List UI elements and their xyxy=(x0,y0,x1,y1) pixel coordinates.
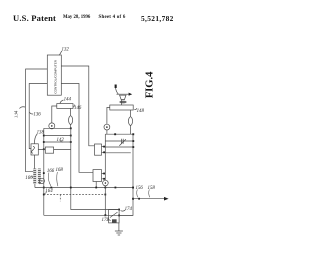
left lead down to electrode circle xyxy=(52,106,57,123)
hook label 158 xyxy=(148,186,156,197)
transformer left winding bottom lead xyxy=(34,184,36,188)
wire R1: control right to box A xyxy=(61,66,94,146)
dots on x133 xyxy=(132,187,134,200)
svg-text:132: 132 xyxy=(62,47,70,52)
transformer 160: right winding xyxy=(38,169,41,185)
switch box 138 xyxy=(31,144,38,155)
dot at box corner xyxy=(118,215,120,217)
label 164 xyxy=(45,189,54,194)
second return wire y194.5 xyxy=(44,194,106,196)
svg-text:148: 148 xyxy=(137,109,145,114)
electrode circle left xyxy=(49,123,55,129)
header: patent number xyxy=(141,14,174,23)
svg-text:156: 156 xyxy=(136,186,144,191)
svg-text:136: 136 xyxy=(33,113,41,118)
svg-text:164: 164 xyxy=(45,189,53,194)
box B bottom stub xyxy=(95,182,97,188)
hook label 166 xyxy=(47,169,55,186)
box A (driver) xyxy=(95,144,102,155)
mid vertical from left cell to bottom xyxy=(70,128,72,210)
bottom wire y209.8 xyxy=(71,209,119,211)
spark gap box 174 xyxy=(109,210,120,223)
right right-lead with envelope ellipse xyxy=(129,110,133,134)
right left-lead down to electrode xyxy=(107,108,110,125)
svg-text:166: 166 xyxy=(47,169,55,174)
transformer 160: left winding xyxy=(33,169,36,185)
label 146 tick xyxy=(74,105,82,111)
ground return wire y187.5 xyxy=(35,187,133,189)
output arrow xyxy=(133,198,165,200)
label 174 with hook xyxy=(121,207,133,212)
label 132 with leader xyxy=(59,47,69,55)
svg-text:142: 142 xyxy=(57,138,65,143)
label 148 xyxy=(134,108,144,114)
switch box lead down to transformer xyxy=(34,155,36,169)
right heater element 148: top rect xyxy=(110,105,133,110)
label 160 with arrow xyxy=(25,176,33,181)
lamp/electrode circle at transformer output xyxy=(39,178,44,184)
wire L1: control left to transformer xyxy=(26,69,48,172)
hook label 168 xyxy=(56,168,64,186)
wire R2: control right to box B xyxy=(61,84,93,173)
svg-text:146: 146 xyxy=(74,106,82,111)
svg-text:144: 144 xyxy=(64,97,72,102)
left heater element 144: top rect xyxy=(57,104,73,109)
svg-text:FIG.4: FIG.4 xyxy=(144,71,155,98)
svg-text:172: 172 xyxy=(102,218,110,223)
right row dots xyxy=(114,133,134,148)
svg-text:134: 134 xyxy=(15,110,20,118)
row junction dots right xyxy=(70,127,72,143)
dot at right end xyxy=(104,194,106,196)
right bus vertical x105.3 xyxy=(104,134,106,215)
svg-text:158: 158 xyxy=(148,186,156,191)
left bus vertical x43.8 xyxy=(43,128,45,215)
electrode circle right cluster xyxy=(104,124,110,134)
hook label 156 xyxy=(136,186,144,197)
antenna/probe symbol 140 above right element xyxy=(115,85,133,106)
dots on return wire xyxy=(50,187,116,189)
label 144 with hook xyxy=(60,97,71,103)
box A output stubs xyxy=(102,147,106,153)
right lead with glass envelope ellipse xyxy=(69,108,73,128)
right cell rows xyxy=(105,134,133,153)
label 138 with hook xyxy=(35,130,45,143)
header: sheet xyxy=(99,15,126,20)
box B output stubs xyxy=(102,174,106,179)
svg-text:CONTROL/COMPUTER: CONTROL/COMPUTER xyxy=(54,59,58,93)
label 136 with hook xyxy=(30,112,42,117)
svg-text:174: 174 xyxy=(125,207,133,212)
junction dots on left bus xyxy=(43,135,45,196)
label 172 xyxy=(102,218,111,223)
control/computer box 132 xyxy=(47,55,61,95)
bottom return wire y217.5 xyxy=(44,214,133,216)
label 134 rotated with hook xyxy=(15,107,26,118)
right edge vertical x133 xyxy=(119,134,133,215)
box B (driver) xyxy=(93,170,102,182)
left cell rows (battery stack wires) xyxy=(38,128,71,149)
ground below spark box xyxy=(115,223,123,235)
FIG.4 caption xyxy=(144,71,155,98)
header: date xyxy=(63,15,90,20)
wire L2: control left to switch box xyxy=(29,84,47,149)
junction dot xyxy=(43,148,45,150)
capacitor box on row 4 xyxy=(45,147,53,153)
electrode circle on right bus xyxy=(103,180,109,186)
label 142 with hook xyxy=(57,138,65,143)
header: U.S. Patent xyxy=(13,13,56,23)
variable capacitor symbol on right row2 xyxy=(119,139,126,146)
svg-text:168: 168 xyxy=(56,168,64,173)
